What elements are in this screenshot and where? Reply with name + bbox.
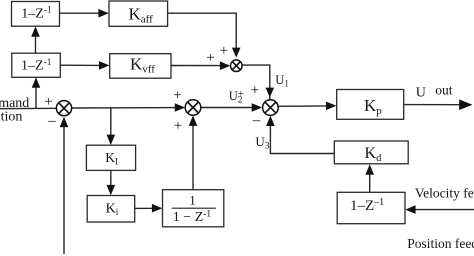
svg-text:1: 1: [189, 193, 196, 208]
wire Z3 to Kd: [365, 164, 374, 193]
svg-text:–: –: [252, 113, 261, 129]
svg-text:+: +: [174, 118, 182, 134]
svg-text:out: out: [435, 82, 453, 97]
svg-text:+: +: [206, 50, 214, 66]
summing junction S2: [185, 100, 201, 116]
summing junction S1: [56, 101, 71, 116]
wire S3 to Kp: [278, 102, 336, 111]
block integrator 1/(1-Z^-1): [163, 190, 224, 227]
block Kp: [337, 90, 404, 120]
wire Z2 to Z1 (vertical riser): [31, 26, 40, 53]
svg-text:+: +: [220, 43, 228, 59]
wire S2 to S3 (U2 path): [201, 103, 262, 112]
svg-text:–: –: [47, 113, 56, 129]
svg-text:+: +: [173, 87, 181, 103]
wire Kvff to summing junction S4: [171, 61, 230, 70]
svg-text:+: +: [44, 94, 52, 110]
svg-text:+: +: [251, 83, 259, 99]
summing junction S4: [231, 60, 243, 72]
block Kaff: [109, 1, 168, 26]
wire Kp to output: [403, 99, 472, 110]
block KI: [86, 145, 135, 170]
wire Z1 to Kaff: [60, 9, 109, 18]
svg-text:+: +: [238, 88, 244, 100]
wire Kaff to summing junction S4: [168, 13, 241, 57]
svg-text:position: position: [0, 109, 22, 124]
wire Z2 to Kvff: [60, 61, 109, 70]
block Kvff: [110, 54, 171, 78]
wire S1 to S2 (main line): [72, 103, 186, 112]
svg-text:U3: U3: [255, 134, 269, 152]
wire command input: [0, 107, 56, 109]
block Kd: [334, 141, 408, 164]
wire S4 to S3 (U1 path): [242, 65, 274, 99]
wire position feedback to S1: [60, 117, 69, 254]
wire Ki to integrator: [135, 204, 163, 213]
block Z2 (second 1-Z^-1): [12, 53, 61, 77]
summing junction S3: [263, 100, 279, 116]
wire command to Z2 (vertical riser): [32, 77, 41, 108]
block Z1 (top-left 1-Z^-1): [12, 2, 60, 27]
block Ki: [87, 196, 135, 223]
wire KI to Ki: [107, 170, 116, 195]
svg-text:U: U: [416, 86, 426, 101]
wire integrator to S2: [189, 116, 198, 190]
svg-text:Position feedback: Position feedback: [407, 236, 474, 251]
wire Kd to S3 (U3 path): [266, 116, 334, 154]
wire velocity feedback input: [405, 205, 474, 214]
block Z3 (velocity feedback 1-Z^-1): [337, 192, 405, 223]
svg-text:Velocity feedback: Velocity feedback: [415, 186, 474, 201]
wire main line to KI (drop): [107, 108, 116, 145]
svg-text:U1: U1: [275, 73, 289, 89]
